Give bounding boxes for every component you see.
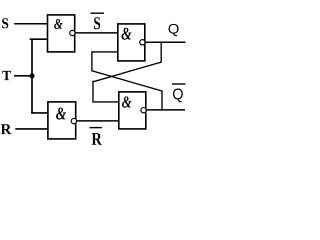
junction T node dot: [29, 73, 34, 78]
overbar of R-bar: [90, 127, 102, 129]
label & of G2: [56, 108, 66, 120]
wire G2 first input: [31, 112, 48, 114]
node Q-bar label: [173, 89, 183, 103]
label & of G3: [122, 28, 132, 40]
nand gate G1 (top-left) box: [48, 15, 75, 52]
label & of G4: [122, 96, 131, 107]
bubble G1 output: [70, 30, 75, 35]
wire Q output: [145, 41, 186, 43]
node R-bar label: [92, 133, 102, 145]
node S-bar label: [94, 17, 100, 29]
wire T input: [14, 75, 32, 77]
wire G1 second input: [30, 38, 48, 40]
nand gate G3 (top-right) box: [118, 24, 145, 61]
wire G2 output to G4: [77, 120, 119, 122]
wire G1 output to G3: [75, 32, 118, 34]
node S label: [2, 18, 8, 28]
wire Q-bar output: [146, 109, 185, 111]
wire R input: [15, 128, 48, 130]
node Q label: [169, 24, 179, 36]
wire G3 second input from Q-bar (cross-coupling): [92, 52, 162, 110]
label & of G1: [54, 19, 63, 29]
node T label: [2, 71, 11, 80]
bubble G4 output: [141, 108, 146, 113]
bubble G2 output: [71, 118, 76, 123]
wire S input: [14, 23, 47, 25]
bubble G3 output: [140, 40, 145, 45]
overbar of Q-bar: [172, 83, 186, 85]
nand gate G2 (bottom-left) box: [48, 102, 76, 139]
wire T vertical branch: [31, 39, 33, 114]
wire G4 first input from Q (cross-coupling): [93, 42, 161, 102]
overbar of S-bar: [91, 12, 104, 14]
nand gate G4 (bottom-right) box: [119, 92, 146, 129]
node R label: [1, 124, 12, 134]
